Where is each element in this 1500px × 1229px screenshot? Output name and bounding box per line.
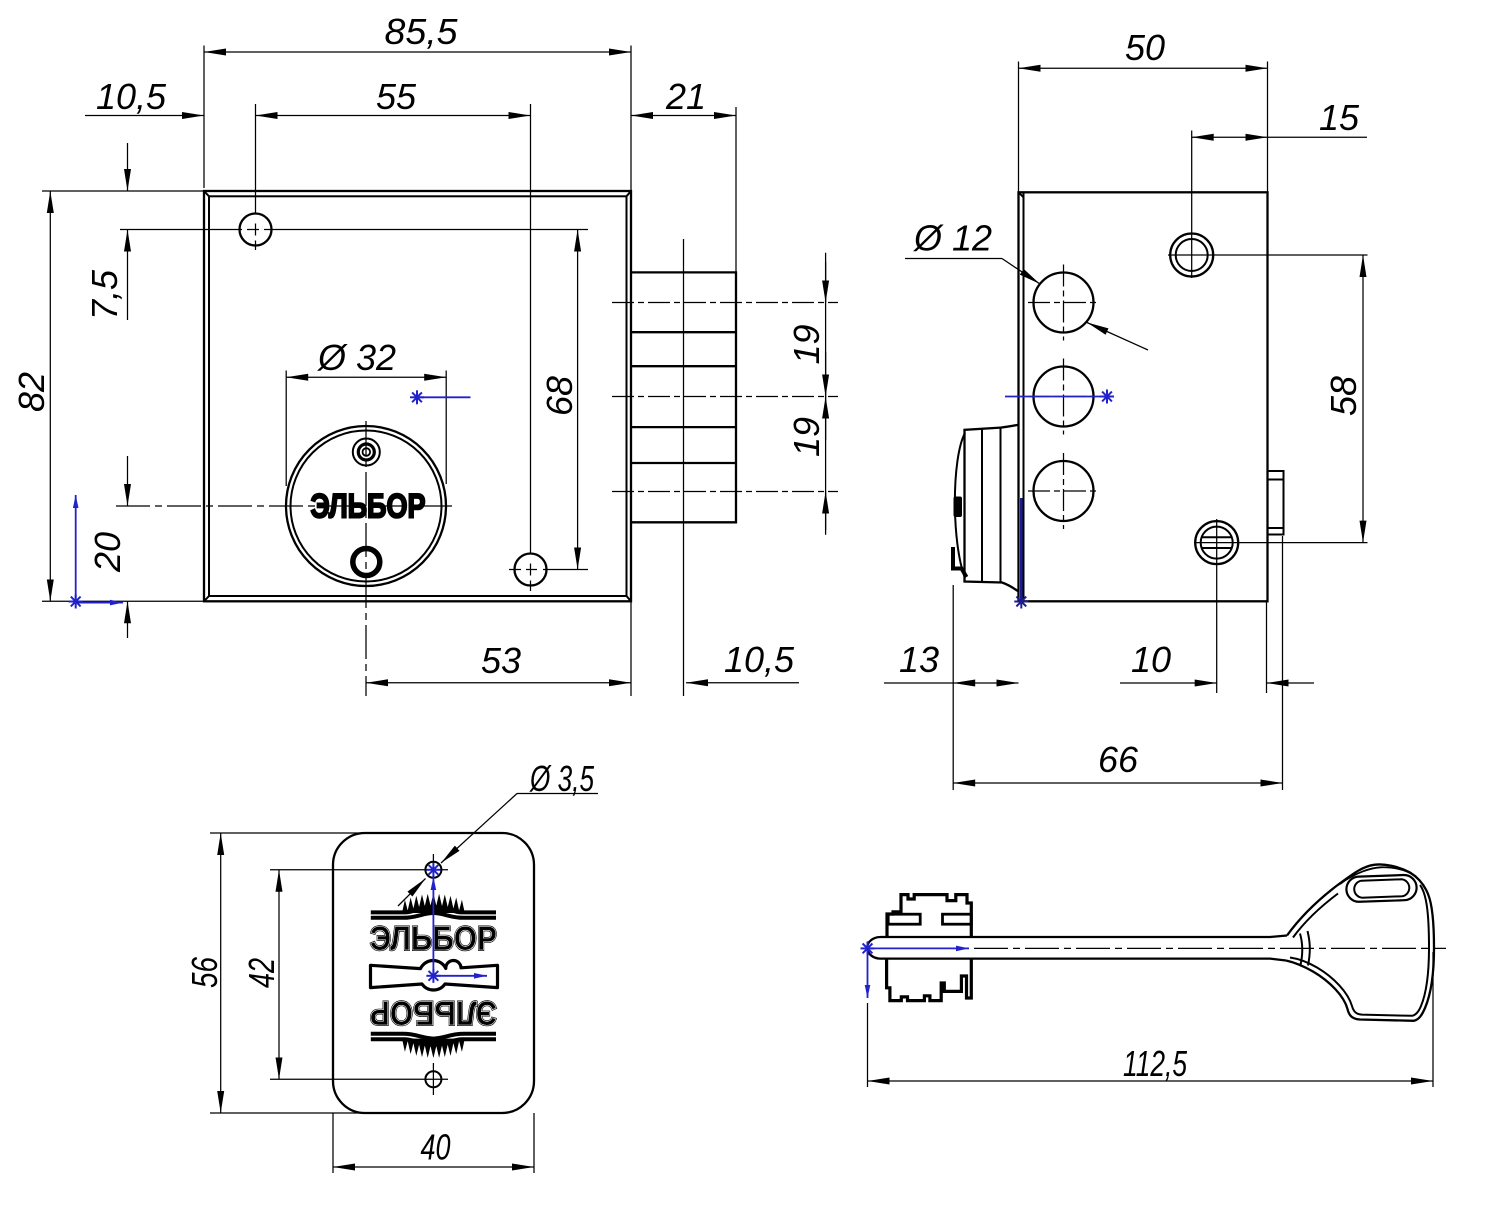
- svg-text:20: 20: [87, 532, 128, 573]
- svg-text:15: 15: [1319, 97, 1360, 138]
- svg-text:Ø 3,5: Ø 3,5: [529, 758, 594, 799]
- svg-text:21: 21: [665, 76, 706, 117]
- svg-text:Ø 12: Ø 12: [913, 218, 992, 259]
- svg-text:7,5: 7,5: [84, 269, 125, 320]
- svg-text:56: 56: [184, 956, 225, 988]
- svg-text:68: 68: [539, 376, 580, 416]
- svg-text:66: 66: [1098, 739, 1139, 780]
- svg-text:10: 10: [1131, 639, 1171, 680]
- svg-text:Ø 32: Ø 32: [317, 337, 396, 378]
- svg-text:ЭЛЬБОР: ЭЛЬБОР: [311, 488, 426, 526]
- svg-text:13: 13: [899, 639, 939, 680]
- svg-text:82: 82: [11, 372, 52, 412]
- svg-text:53: 53: [481, 640, 521, 681]
- svg-text:19: 19: [786, 417, 827, 457]
- svg-text:112,5: 112,5: [1123, 1043, 1188, 1084]
- svg-text:40: 40: [421, 1127, 451, 1168]
- svg-text:19: 19: [786, 324, 827, 364]
- svg-text:55: 55: [376, 76, 417, 117]
- svg-text:58: 58: [1323, 376, 1364, 416]
- svg-text:10,5: 10,5: [724, 639, 795, 680]
- svg-text:10,5: 10,5: [96, 76, 167, 117]
- svg-text:42: 42: [241, 958, 282, 988]
- svg-text:ЭЛЬБОР: ЭЛЬБОР: [370, 994, 497, 1032]
- svg-text:85,5: 85,5: [385, 11, 459, 52]
- svg-text:50: 50: [1125, 27, 1165, 68]
